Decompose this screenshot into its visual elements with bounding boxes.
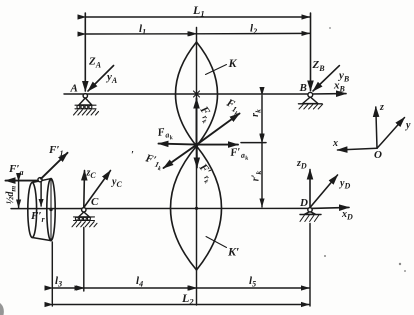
support C roller rail xyxy=(74,217,95,221)
gear K' lens xyxy=(171,146,222,270)
support A hatching xyxy=(74,110,99,115)
scan speckle 1 xyxy=(324,255,326,257)
force F'_1k xyxy=(164,145,197,168)
dimension r'_k xyxy=(261,143,263,207)
support C hatching xyxy=(72,222,97,227)
pinion front ellipse xyxy=(47,179,55,241)
svg-text:yD: yD xyxy=(339,178,350,191)
support A roller rail xyxy=(75,105,96,109)
svg-text:F′1k: F′1k xyxy=(142,152,164,172)
svg-text:l1: l1 xyxy=(139,23,146,37)
support C pin xyxy=(82,208,86,212)
dimension l3 xyxy=(53,287,83,289)
gear K lens xyxy=(176,42,218,146)
pinion back ellipse xyxy=(28,183,37,238)
center cross of gear K xyxy=(194,91,200,97)
reaction Y_A arrow xyxy=(88,66,114,92)
support D ground line xyxy=(300,214,321,216)
svg-text:zD: zD xyxy=(296,158,307,171)
x_D axis arrow xyxy=(311,207,349,208)
support C triangle xyxy=(79,212,90,217)
svg-text:x: x xyxy=(332,138,338,149)
scan speckle 4 xyxy=(329,27,331,29)
support B triangle xyxy=(303,97,319,104)
svg-text:yA: yA xyxy=(105,71,118,85)
extension below D xyxy=(309,224,311,307)
support B hatching xyxy=(299,104,323,109)
pinion bottom edge xyxy=(32,238,51,241)
dimension L1 xyxy=(86,16,310,18)
svg-text:A: A xyxy=(70,83,78,95)
svg-text:l2: l2 xyxy=(250,23,257,37)
dimension L2 xyxy=(53,304,310,306)
svg-text:r′k: r′k xyxy=(251,171,264,182)
leader line to K' label xyxy=(206,237,227,248)
svg-text:L1: L1 xyxy=(192,3,205,19)
frame O z axis xyxy=(376,107,377,148)
svg-text:xD: xD xyxy=(341,209,353,222)
gear centerline extension to dims xyxy=(196,270,198,305)
leader line to K label xyxy=(206,65,227,75)
extension + Z_B reaction arrow at B xyxy=(310,13,312,91)
force F_rk xyxy=(196,99,198,145)
pinion front center dot xyxy=(49,208,52,211)
svg-text:K: K xyxy=(228,56,238,70)
mesh junction dot xyxy=(195,143,199,147)
svg-text:B: B xyxy=(299,82,307,94)
svg-text:l4: l4 xyxy=(136,275,143,289)
top shaft AB xyxy=(64,93,311,95)
axis z_C arrow xyxy=(83,171,86,208)
support D pin xyxy=(308,208,312,212)
extension below C xyxy=(83,228,85,292)
dimension l4 xyxy=(85,287,197,289)
svg-text:F′1: F′1 xyxy=(48,144,63,158)
scan speckle 2 xyxy=(399,263,401,265)
gear centerline vertical xyxy=(196,42,198,270)
svg-text:l3: l3 xyxy=(55,275,62,289)
extension below pinion xyxy=(51,242,53,306)
frame O y axis xyxy=(377,118,405,149)
svg-text:D: D xyxy=(299,197,308,209)
force F'_a on pinion xyxy=(6,180,39,182)
pinion front face diameter xyxy=(50,179,52,241)
support B pin xyxy=(308,92,313,97)
svg-text:ZA: ZA xyxy=(88,56,102,70)
dimension l1 xyxy=(86,33,196,35)
svg-text:F′ak: F′ak xyxy=(229,146,249,164)
svg-text:L2: L2 xyxy=(181,291,194,307)
support B ground line xyxy=(299,103,323,105)
dimension half dm xyxy=(18,182,20,209)
center tick of l1/l2 xyxy=(196,28,198,43)
svg-text:O: O xyxy=(374,149,382,161)
axis y_D arrow xyxy=(310,175,338,208)
svg-text:½dm: ½dm xyxy=(5,186,18,205)
force F'_r on pinion xyxy=(40,182,42,206)
svg-text:l5: l5 xyxy=(249,275,256,289)
svg-text:F′r: F′r xyxy=(30,210,45,224)
dimension l2 xyxy=(197,32,310,34)
svg-text:Fak: Fak xyxy=(156,125,173,143)
support D triangle xyxy=(305,212,316,215)
pinion force application circle xyxy=(38,178,42,182)
pinion top edge xyxy=(32,179,51,183)
scan smudge bottom-left corner xyxy=(0,303,4,315)
dimension l5 xyxy=(197,287,310,289)
svg-text:ZB: ZB xyxy=(312,59,326,73)
support D hatching xyxy=(300,215,319,222)
force F'_ak xyxy=(197,144,239,146)
svg-text:zC: zC xyxy=(86,168,97,181)
force F'_1 on pinion xyxy=(41,153,68,179)
scan speckle 3 xyxy=(404,270,406,272)
center dot of gear K' xyxy=(195,207,198,210)
x_B axis arrow xyxy=(311,93,346,95)
axis y_C arrow xyxy=(84,171,111,208)
svg-text:′: ′ xyxy=(131,150,134,161)
frame O x axis xyxy=(338,148,378,150)
support A triangle xyxy=(79,98,92,105)
svg-text:F′a: F′a xyxy=(8,163,23,177)
svg-text:C: C xyxy=(91,196,99,208)
svg-text:yC: yC xyxy=(111,177,122,190)
bottom shaft CD xyxy=(11,207,311,209)
extension + Z_A reaction arrow at A xyxy=(84,13,86,91)
dimension r_k xyxy=(261,96,263,143)
force F'_rk xyxy=(196,145,198,168)
svg-text:rk: rk xyxy=(250,109,263,117)
axis z_D arrow xyxy=(309,170,311,208)
support A pin xyxy=(83,94,87,98)
force F_1k xyxy=(197,114,240,145)
force F_ak xyxy=(159,144,197,145)
svg-text:K′: K′ xyxy=(227,245,239,259)
svg-text:z: z xyxy=(379,102,384,113)
svg-text:y: y xyxy=(405,120,411,131)
reaction Y_B arrow xyxy=(313,66,339,91)
extension line at mesh level xyxy=(241,142,266,144)
